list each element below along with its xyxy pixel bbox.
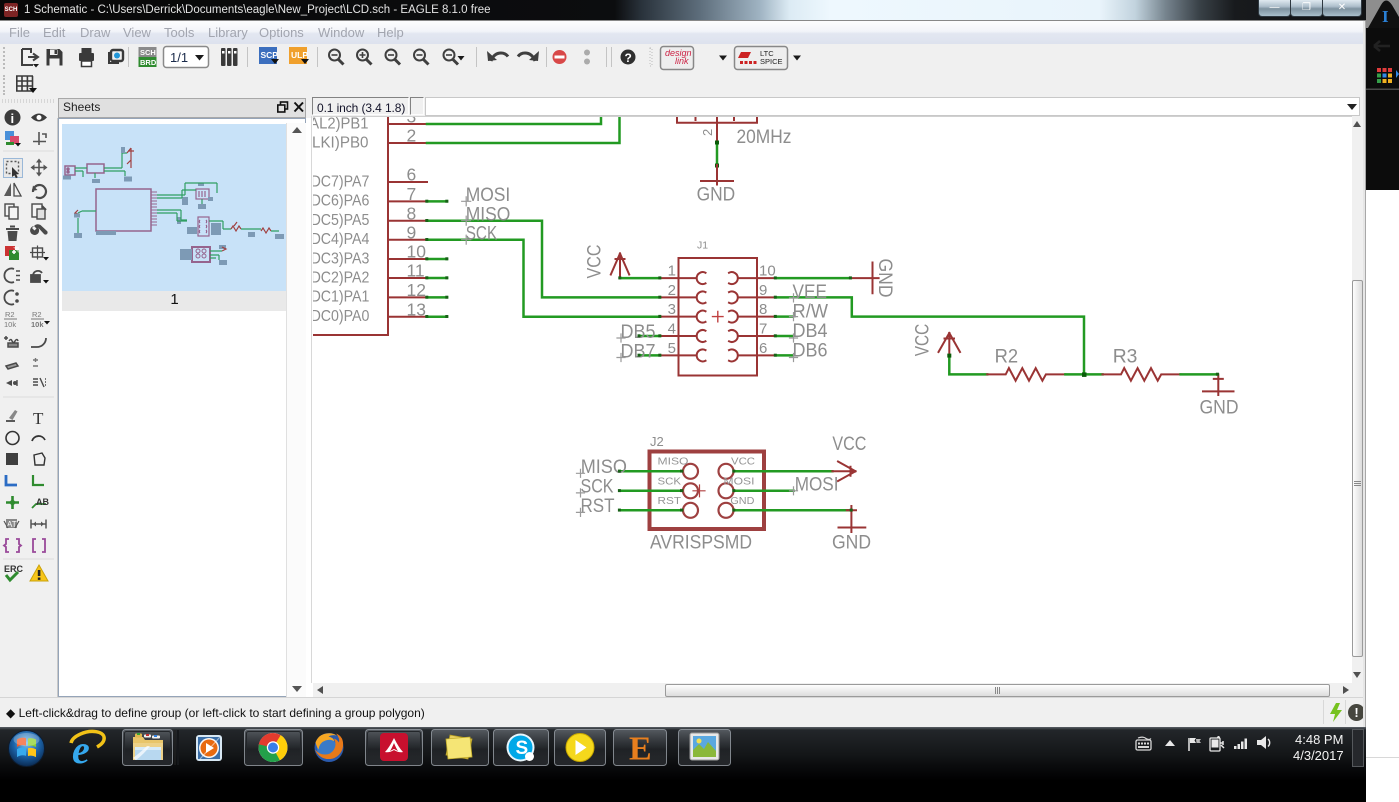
play icon	[566, 734, 594, 762]
svg-text:ERC: ERC	[4, 564, 24, 574]
supply VCC arrow at R2	[939, 333, 961, 356]
folder frame	[123, 730, 173, 766]
mini resistors	[231, 222, 271, 233]
svg-text:VCC: VCC	[731, 456, 755, 468]
start orb	[9, 731, 45, 767]
zoom select	[444, 50, 465, 65]
svg-text:SCH: SCH	[140, 48, 156, 57]
svg-text:4: 4	[668, 321, 676, 338]
wire stub PA1	[427, 296, 447, 299]
chrome frame	[245, 730, 303, 766]
play frame	[555, 730, 606, 766]
photo icon	[690, 733, 719, 760]
supply VCC arrow at J1	[611, 254, 629, 279]
tool line	[6, 410, 18, 421]
vertical scrollbar	[1352, 118, 1363, 683]
horizontal scrollbar	[313, 683, 1352, 697]
panel scrollbar	[286, 123, 306, 698]
tool bus	[6, 475, 17, 485]
tray speaker	[1257, 736, 1270, 749]
ground GND4	[839, 506, 866, 532]
J2 pads	[683, 464, 734, 518]
row 3: headers	[0, 98, 1366, 118]
adobe frame	[366, 730, 423, 766]
svg-text:(ADC5)PA5: (ADC5)PA5	[313, 212, 369, 229]
wire stub PA3	[427, 258, 447, 261]
tool reposition	[4, 291, 18, 305]
mini gnd pads	[63, 147, 132, 183]
svg-text:J2: J2	[650, 434, 664, 449]
wire J2 VCC to arrow	[734, 470, 832, 473]
svg-text:R3: R3	[1113, 345, 1138, 367]
zoom fit	[329, 50, 344, 65]
icon print	[79, 48, 94, 67]
firefox icon	[315, 733, 344, 762]
svg-text:(ADC6)PA6: (ADC6)PA6	[313, 193, 369, 210]
mini reset wire	[75, 210, 96, 214]
svg-text:9: 9	[407, 222, 417, 242]
J1 left pin numbers	[668, 263, 676, 357]
IC U1 body (partial)	[313, 117, 388, 335]
svg-text:4/3/2017: 4/3/2017	[1293, 748, 1344, 763]
separator	[476, 47, 477, 67]
svg-text:R2: R2	[32, 310, 42, 319]
tool dimension 2	[33, 539, 45, 552]
svg-text:8: 8	[407, 203, 417, 223]
svg-text:2: 2	[700, 129, 715, 136]
svg-text:MOSI: MOSI	[795, 473, 839, 495]
eagle frame	[614, 730, 667, 766]
resistor R3	[1103, 368, 1181, 381]
icon library	[221, 48, 238, 66]
icon image export	[109, 50, 123, 63]
tray up arrow	[1165, 740, 1175, 746]
J1 right pin numbers	[759, 263, 776, 357]
tool junction	[6, 496, 19, 509]
svg-text:8: 8	[759, 301, 767, 318]
separator	[317, 47, 318, 67]
wire J1 pin 10 to GND	[776, 277, 851, 280]
svg-text:7: 7	[759, 321, 767, 338]
tray keyboard	[1136, 737, 1151, 750]
IC U1 pin stubs	[388, 124, 427, 317]
J1 right pin stubs	[739, 278, 776, 355]
tray network	[1234, 739, 1247, 750]
tool optimize	[33, 358, 38, 366]
J1 center cross	[713, 312, 724, 322]
svg-text:GND: GND	[697, 183, 736, 205]
wire stub PA2	[427, 277, 447, 280]
svg-text:6: 6	[407, 165, 417, 185]
svg-text:GND: GND	[730, 495, 754, 507]
icon redo	[518, 51, 539, 61]
zoom redraw	[414, 50, 429, 65]
eagle icon	[629, 731, 652, 768]
tool attribute	[4, 519, 19, 529]
tool rotate	[32, 185, 46, 198]
svg-text:20MHz: 20MHz	[737, 126, 792, 148]
tool group (selected)	[4, 159, 23, 179]
ground GND2 (rotated)	[851, 263, 879, 294]
mini regulator box	[87, 164, 104, 173]
tool polygon	[34, 453, 45, 465]
tool circle	[6, 432, 19, 445]
skype icon	[507, 734, 535, 762]
separator	[247, 47, 248, 67]
toolbar row 2	[0, 72, 1366, 98]
mini crystal block	[196, 189, 209, 199]
wire VCC to R2	[949, 356, 987, 375]
svg-text:11: 11	[407, 261, 425, 281]
tool change class	[4, 269, 20, 283]
tool errors	[30, 565, 48, 581]
mini IC	[96, 189, 151, 231]
menu bar	[0, 21, 1366, 45]
icon running dots	[584, 50, 590, 65]
photo frame	[679, 730, 731, 766]
zoom out	[386, 50, 401, 65]
tool copy attributes	[33, 378, 46, 387]
left tool palette	[0, 118, 58, 697]
crystal Q1 (partial, clipped at top)	[677, 117, 757, 142]
wire R/W stub	[776, 315, 793, 318]
svg-text:SCK: SCK	[658, 475, 682, 487]
tool show	[31, 114, 47, 122]
tool net	[33, 475, 44, 485]
skype frame	[494, 730, 549, 766]
separator	[546, 47, 547, 67]
svg-text:MISO: MISO	[658, 456, 689, 468]
svg-text:(CLKI)PB0: (CLKI)PB0	[313, 134, 369, 151]
tool info	[5, 110, 21, 127]
wire J2 GND	[734, 509, 851, 512]
label origin crosses MOSI MISO SCK	[462, 197, 471, 244]
wire VCC to J1 pin 1	[620, 277, 660, 280]
tool mirror	[4, 183, 21, 196]
J1 left pin stubs	[660, 278, 696, 355]
icon help	[621, 50, 636, 66]
ground GND1	[701, 165, 733, 185]
mini wires left	[75, 153, 127, 178]
svg-text:7: 7	[407, 184, 417, 204]
svg-text:3: 3	[668, 301, 676, 318]
icon undo	[487, 51, 508, 61]
svg-text:12: 12	[407, 280, 426, 300]
mini J1	[198, 217, 209, 236]
mini crystal wires	[157, 183, 217, 204]
IC U1 pin names	[287, 115, 370, 325]
svg-text:13: 13	[407, 299, 426, 319]
canvas left edge line	[311, 116, 312, 683]
eagle window right border	[1363, 21, 1366, 727]
svg-text:E: E	[629, 731, 652, 768]
tool mark	[33, 132, 46, 145]
tool change (wrench)	[30, 224, 48, 235]
tool resistor value 2	[31, 310, 50, 329]
wire R2 to R3	[1065, 373, 1102, 376]
wmp icon	[196, 735, 222, 761]
svg-text:GND: GND	[832, 532, 871, 554]
icon ULP	[289, 47, 309, 64]
mini J2	[192, 247, 210, 262]
tool miter	[31, 338, 46, 347]
notes frame	[432, 730, 489, 766]
tool move	[31, 159, 48, 177]
tool dimension 1	[4, 539, 21, 552]
resistor R2	[987, 368, 1065, 381]
wire DB7 stub	[639, 354, 660, 357]
tool delete	[6, 226, 19, 242]
icon SCP	[259, 47, 279, 64]
wire PB0 to crystal	[427, 117, 620, 143]
tool width	[31, 520, 46, 529]
tool smash	[4, 336, 18, 347]
ground GND3	[1203, 374, 1234, 395]
svg-text:6: 6	[759, 340, 767, 357]
svg-text:5: 5	[668, 340, 676, 357]
svg-text:SCP: SCP	[261, 50, 279, 60]
wire R3 to GND	[1181, 373, 1218, 376]
tool copy	[5, 204, 18, 219]
svg-text:VCC: VCC	[832, 433, 866, 455]
svg-text:RST: RST	[658, 495, 682, 507]
svg-text:AB: AB	[36, 497, 49, 507]
junction dot R2-R3	[1082, 372, 1087, 377]
tool rect	[6, 453, 18, 465]
svg-text:ULP: ULP	[291, 50, 308, 60]
wire RST to J2	[620, 509, 682, 512]
design link button	[661, 47, 694, 70]
svg-text:R2: R2	[5, 310, 15, 319]
svg-text:VCC: VCC	[584, 245, 606, 279]
toolbar handle	[650, 48, 652, 66]
tool arc	[32, 436, 45, 441]
J2 pad labels	[658, 456, 756, 507]
mini IC bottom bar	[96, 231, 116, 235]
svg-text:i: i	[11, 111, 15, 126]
right strip	[1366, 0, 1399, 802]
svg-text:VCC: VCC	[912, 324, 934, 357]
svg-text:(XTAL2)PB1: (XTAL2)PB1	[313, 117, 369, 132]
LTC SPICE button	[735, 47, 788, 70]
folder icon	[133, 733, 163, 760]
wire MISO to J2	[620, 470, 682, 473]
notes icon	[446, 735, 472, 759]
IC U1 pin numbers	[407, 107, 427, 320]
svg-text:SPICE: SPICE	[760, 57, 783, 66]
tray power plug	[1210, 736, 1224, 751]
junction dots	[715, 141, 719, 168]
svg-text:4:48 PM: 4:48 PM	[1295, 732, 1343, 747]
wire DB6 stub	[776, 354, 793, 357]
wire MISO net PA5 to J1 pin 2	[427, 221, 660, 298]
chrome icon	[254, 731, 291, 768]
tray flag	[1189, 738, 1201, 751]
wire DB4 stub	[776, 335, 793, 338]
svg-text:link: link	[675, 56, 689, 66]
svg-text:(ADC3)PA3: (ADC3)PA3	[313, 250, 369, 267]
wire end connection dots	[425, 200, 1219, 512]
mini power connector	[65, 166, 75, 175]
svg-text:R2: R2	[995, 345, 1019, 367]
label origin crosses J2 left	[577, 469, 585, 516]
adobe icon	[380, 733, 408, 761]
svg-text:10k: 10k	[4, 320, 16, 329]
connector J2 body	[650, 452, 765, 530]
wire crystal to GND	[716, 142, 719, 165]
label origin crosses J1	[617, 294, 798, 362]
IE icon	[71, 727, 104, 772]
svg-text:?: ?	[625, 51, 632, 65]
svg-text:GND: GND	[1200, 397, 1239, 419]
sheets panel	[58, 118, 306, 697]
svg-text:10: 10	[759, 263, 776, 280]
label MOSI	[466, 184, 511, 244]
svg-text:BRD: BRD	[140, 58, 157, 67]
svg-text:GND: GND	[874, 259, 896, 298]
tool group move	[30, 246, 49, 261]
mini IC pins	[151, 192, 157, 225]
svg-text:SCK: SCK	[466, 223, 498, 245]
tool label	[32, 497, 49, 508]
coord box + combo	[312, 97, 409, 115]
wire SCK to J2	[620, 490, 682, 493]
wire stub PA0	[427, 315, 447, 318]
svg-text:1/1: 1/1	[170, 50, 188, 65]
junction dot VCC stem	[947, 354, 951, 358]
wire VEE net J1 pin 9 to R2/R3 junction	[776, 297, 1085, 374]
window title bar	[0, 0, 1366, 21]
wire J2 MOSI	[734, 490, 794, 493]
tool resistor value R2 10k	[4, 310, 17, 329]
svg-text:(ADC2)PA2: (ADC2)PA2	[313, 269, 369, 286]
svg-text:I: I	[1382, 7, 1389, 26]
icon open	[22, 49, 39, 68]
icon SCH/BRD	[139, 47, 157, 67]
tool display layers	[5, 131, 21, 147]
label origin cross MOSI right	[790, 487, 798, 495]
connector J1 body	[679, 258, 758, 376]
icon stop	[553, 50, 567, 64]
tool add part	[5, 246, 19, 260]
mini crystal gnd	[198, 204, 206, 209]
separators	[606, 47, 607, 67]
tool invoke	[6, 380, 17, 386]
combo 1/1	[164, 47, 209, 68]
wire MOSI stub on PA6	[427, 200, 447, 203]
toolbar row 1	[0, 44, 1366, 72]
supply VCC arrow right	[832, 462, 855, 482]
svg-text:RST: RST	[581, 495, 615, 517]
wire PB1 to crystal	[427, 117, 601, 124]
wire SCK net PA4 to J1 pin 3	[427, 240, 660, 317]
wire DB5 stub	[639, 335, 660, 338]
tool ERC	[4, 564, 24, 580]
svg-text:J1: J1	[697, 240, 708, 252]
svg-text:(ADC4)PA4: (ADC4)PA4	[313, 231, 370, 248]
svg-text:10: 10	[407, 242, 427, 262]
tool lock	[31, 271, 49, 284]
svg-text:DB7: DB7	[621, 340, 656, 362]
tool paste	[32, 204, 46, 219]
grid icon row2	[16, 76, 37, 93]
J1 left receptacles	[697, 272, 706, 361]
zoom in	[357, 50, 372, 65]
svg-text:(ADC7)PA7: (ADC7)PA7	[313, 173, 369, 190]
svg-text:9: 9	[759, 282, 767, 299]
svg-text:AVRISPSMD: AVRISPSMD	[650, 532, 752, 554]
separator	[128, 47, 129, 67]
svg-text:2: 2	[668, 282, 676, 299]
svg-text:1: 1	[668, 263, 676, 280]
status bar	[0, 697, 1366, 728]
svg-text:(ADC1)PA1: (ADC1)PA1	[313, 289, 369, 306]
J2 pin 1 cross	[693, 485, 705, 497]
taskbar	[0, 727, 1366, 802]
svg-text:(ADC0)PA0: (ADC0)PA0	[313, 308, 369, 325]
schematic canvas	[313, 116, 1352, 684]
show desktop	[1353, 730, 1364, 767]
mini J1 wires	[157, 210, 231, 229]
J1 right receptacles	[729, 272, 738, 361]
svg-text:MOSI: MOSI	[724, 475, 755, 487]
svg-text:2: 2	[407, 126, 417, 146]
mini vcc arrows	[127, 148, 134, 168]
tool split	[6, 363, 18, 369]
svg-text:T: T	[33, 409, 44, 428]
svg-text:10k: 10k	[31, 320, 44, 329]
icon save	[47, 49, 63, 66]
